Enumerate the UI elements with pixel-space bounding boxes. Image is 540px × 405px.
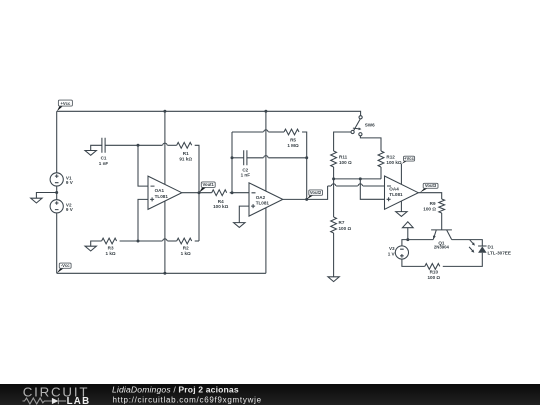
svg-text:OA2: OA2 [256,195,266,200]
svg-text:1 nF: 1 nF [241,172,251,177]
svg-text:D1: D1 [488,245,494,250]
svg-text:1 nF: 1 nF [99,161,109,166]
svg-text:2N3904: 2N3904 [434,245,450,250]
svg-text:91 kΩ: 91 kΩ [179,157,192,162]
svg-text:1 MΩ: 1 MΩ [287,143,299,148]
svg-text:LTL-307EE: LTL-307EE [488,251,511,256]
svg-text:C1: C1 [101,155,107,160]
svg-text:Vout2: Vout2 [310,190,322,195]
svg-text:OA4: OA4 [389,187,399,192]
svg-text:9 V: 9 V [66,207,74,212]
svg-text:+Vcc: +Vcc [60,101,71,106]
svg-text:R12: R12 [386,154,395,159]
svg-text:1 kΩ: 1 kΩ [181,251,191,256]
svg-text:R2: R2 [183,246,189,251]
svg-text:http://circuitlab.com/c69f9xgm: http://circuitlab.com/c69f9xgmtywje [113,396,262,405]
svg-text:R11: R11 [339,154,348,159]
svg-text:Vout1: Vout1 [203,182,215,187]
svg-text:100 Ω: 100 Ω [339,226,352,231]
svg-text:9 V: 9 V [66,180,74,185]
svg-text:LAB: LAB [67,396,91,405]
svg-text:SW6: SW6 [365,123,375,128]
svg-text:+Vcc: +Vcc [404,156,415,161]
svg-text:TL081: TL081 [155,194,169,199]
svg-text:TL081: TL081 [256,201,270,206]
svg-text:100 Ω: 100 Ω [339,160,352,165]
svg-text:OA1: OA1 [155,188,165,193]
svg-text:R10: R10 [430,269,439,274]
svg-text:1 kΩ: 1 kΩ [106,251,116,256]
svg-text:R7: R7 [339,220,345,225]
svg-text:Vout3: Vout3 [425,183,437,188]
svg-text:100 kΩ: 100 kΩ [213,204,228,209]
svg-text:R1: R1 [183,151,189,156]
svg-text:100 Ω: 100 Ω [427,275,440,280]
svg-text:R3: R3 [108,246,114,251]
svg-text:LidiaDomingos / Proj 2 acionas: LidiaDomingos / Proj 2 acionas [112,385,239,395]
svg-text:-Vcc: -Vcc [61,263,71,268]
svg-text:TL081: TL081 [389,192,403,197]
svg-text:R5: R5 [290,138,296,143]
svg-text:100 kΩ: 100 kΩ [386,160,401,165]
svg-text:V3: V3 [389,246,395,251]
svg-text:100 Ω: 100 Ω [423,206,436,211]
svg-text:1 V: 1 V [388,251,396,256]
